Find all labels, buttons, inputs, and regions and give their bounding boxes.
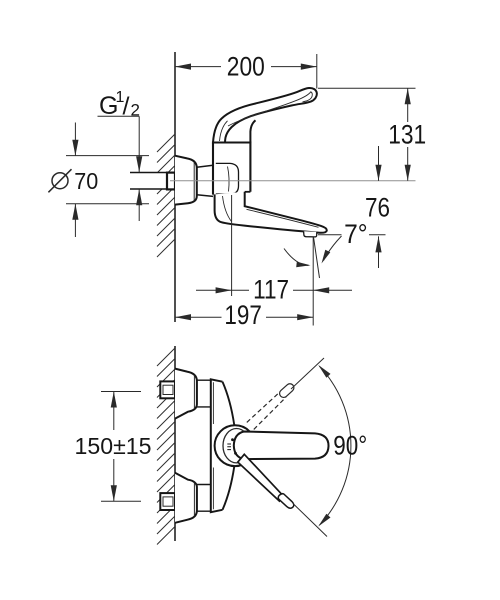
svg-text:90°: 90° bbox=[333, 431, 367, 461]
svg-text:76: 76 bbox=[365, 192, 390, 222]
svg-text:197: 197 bbox=[224, 300, 262, 330]
svg-text:7°: 7° bbox=[344, 219, 368, 249]
svg-text:150±15: 150±15 bbox=[75, 433, 152, 459]
svg-text:200: 200 bbox=[227, 52, 265, 82]
svg-text:131: 131 bbox=[388, 120, 426, 150]
svg-text:70: 70 bbox=[74, 168, 98, 194]
